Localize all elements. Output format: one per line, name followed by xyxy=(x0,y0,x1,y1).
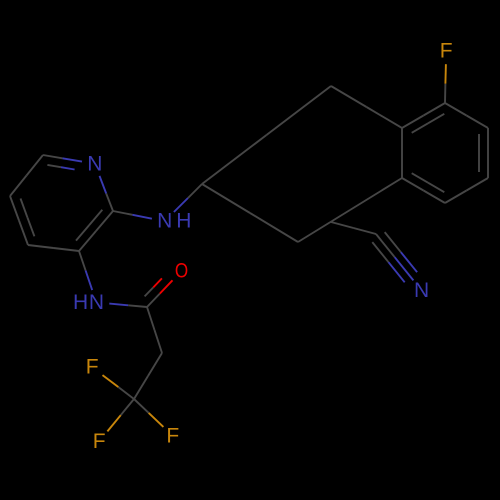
bond NH-CH macrocycle xyxy=(174,184,202,212)
svg-text:N: N xyxy=(157,210,172,233)
svg-text:F: F xyxy=(440,40,453,63)
bond C4=C5 pyridine double bond xyxy=(10,196,34,245)
wire macrocycle upper chain CH-apex xyxy=(202,86,331,184)
bond N1=C6 pyridine double bond xyxy=(43,155,82,170)
bond C-F1 trifluoromethyl xyxy=(103,375,135,399)
svg-text:F: F xyxy=(86,356,99,379)
bond C-F2 trifluoromethyl xyxy=(107,399,134,431)
svg-text:F: F xyxy=(93,430,106,453)
svg-text:H: H xyxy=(176,210,191,233)
wire macrocycle bottom vertex to benzene C10a xyxy=(298,178,402,242)
bond C(=O)-CH2 xyxy=(147,307,162,353)
wire macrocycle apex to benzene C6a xyxy=(331,86,402,128)
bond benzene P2=P3 double xyxy=(479,128,488,178)
bond benzene P4=P5 double xyxy=(402,173,445,203)
bond benzene P5-P6 xyxy=(401,128,403,178)
amine NH label xyxy=(157,210,191,233)
svg-text:O: O xyxy=(175,259,188,282)
svg-text:N: N xyxy=(414,279,429,302)
bond benzene P6=P1 double xyxy=(402,103,445,133)
bond CH2-CF3 xyxy=(134,353,162,399)
svg-text:N: N xyxy=(89,291,104,314)
amide HN label xyxy=(73,291,104,314)
wire macrocycle lower chain CH to bottom vertex xyxy=(202,184,298,242)
pyridine nitrogen N1 label xyxy=(87,152,102,175)
bond benzene P1-P2 xyxy=(445,103,488,128)
fluorine F label on benzene xyxy=(440,40,453,63)
bond N1-C2 pyridine xyxy=(100,176,114,211)
bond benzene P3-P4 xyxy=(445,178,488,203)
fluorine F3 label xyxy=(166,424,179,447)
bond C-F3 trifluoromethyl xyxy=(134,399,163,427)
svg-text:N: N xyxy=(87,152,102,175)
bond C-F aryl fluoride xyxy=(444,64,447,103)
bond CH-C nitrile attachment xyxy=(331,222,376,234)
fluorine F2 label xyxy=(93,430,106,453)
nitrile C#N triple bond xyxy=(372,232,417,282)
carbonyl oxygen O label xyxy=(175,259,188,282)
svg-text:H: H xyxy=(73,291,88,314)
carbonyl C=O double bond xyxy=(145,278,173,307)
svg-text:F: F xyxy=(166,424,179,447)
nitrile nitrogen N label xyxy=(414,279,429,302)
bond C5-C6 pyridine xyxy=(10,155,43,196)
bond HN-C(=O) amide xyxy=(109,304,147,307)
bond C2=C3 pyridine double bond xyxy=(76,210,113,251)
fluorine F1 label xyxy=(86,356,99,379)
bond C3-C4 pyridine xyxy=(28,245,79,251)
bond C2-NH amine link xyxy=(113,211,152,219)
bond C3-NH amide link xyxy=(79,251,92,290)
